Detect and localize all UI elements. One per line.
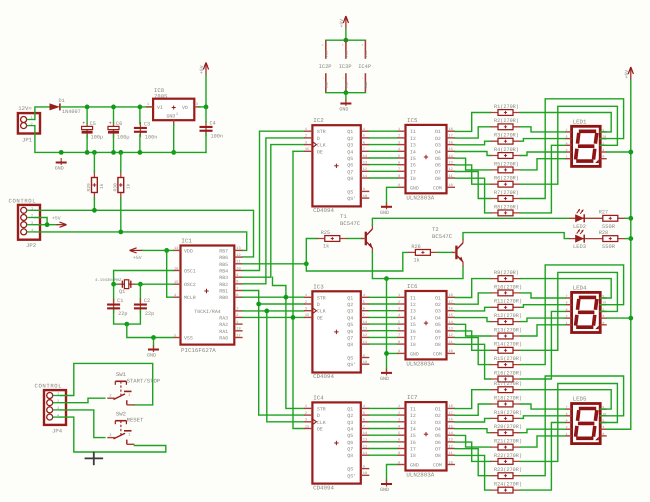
svg-text:14: 14 xyxy=(363,154,367,159)
svg-text:GND: GND xyxy=(380,376,389,382)
junction transistor emitters to GND xyxy=(384,351,389,356)
svg-text:12V=: 12V= xyxy=(18,105,32,112)
svg-text:Q5: Q5 xyxy=(347,433,353,439)
svg-text:RB4: RB4 xyxy=(219,269,228,275)
wire R24 to LED5 xyxy=(521,423,566,491)
wire T1 collector to LED2 xyxy=(372,218,569,225)
svg-text:R27: R27 xyxy=(599,210,608,216)
svg-text:13: 13 xyxy=(363,438,367,443)
junction emitter ground node xyxy=(384,276,389,281)
svg-text:Q2: Q2 xyxy=(347,413,353,419)
transistor T1 BC547C xyxy=(340,213,373,253)
svg-text:Q8: Q8 xyxy=(347,176,353,182)
svg-text:R21(270R): R21(270R) xyxy=(494,439,522,445)
svg-text:Q3: Q3 xyxy=(347,143,353,149)
wire R8 to LED1 xyxy=(521,145,566,213)
wire IC6 GND pin xyxy=(387,353,398,371)
junction VSS ground xyxy=(151,335,156,340)
wire node to R25 xyxy=(306,239,317,264)
svg-text:R15(270R): R15(270R) xyxy=(494,356,522,362)
svg-text:Q6: Q6 xyxy=(347,329,353,335)
svg-text:OSC2: OSC2 xyxy=(184,282,196,288)
wire node to T2 emitter xyxy=(387,267,464,279)
resistor R4 270R xyxy=(491,147,521,159)
svg-text:O5: O5 xyxy=(435,322,441,328)
svg-text:IC2P: IC2P xyxy=(319,64,332,70)
svg-text:9: 9 xyxy=(236,273,238,278)
wire net STROBE1 RB4 to IC2 STR xyxy=(243,131,304,270)
wire IC4 Q8 to IC7 I8 xyxy=(369,454,397,456)
wire R9 to LED4 segment right top xyxy=(521,279,612,298)
junction ground rail at C6 xyxy=(111,150,116,155)
svg-text:13: 13 xyxy=(449,327,453,332)
svg-text:13: 13 xyxy=(449,438,453,443)
svg-text:O2: O2 xyxy=(435,302,441,308)
svg-text:VO: VO xyxy=(182,105,188,111)
svg-text:6: 6 xyxy=(363,418,365,423)
junction +12V at C3 xyxy=(138,105,143,110)
svg-text:START/STOP: START/STOP xyxy=(127,377,161,384)
svg-text:RA3: RA3 xyxy=(219,315,228,321)
junction ground rail at R29 xyxy=(92,150,97,155)
svg-text:9: 9 xyxy=(363,187,365,192)
svg-text:MCLR: MCLR xyxy=(184,295,196,301)
wire IC5 O3 to R3 xyxy=(455,141,491,145)
svg-text:C3: C3 xyxy=(144,121,150,127)
svg-text:CLK: CLK xyxy=(317,309,326,315)
svg-text:GND: GND xyxy=(364,81,369,89)
svg-text:R29: R29 xyxy=(86,183,92,192)
svg-text:1k: 1k xyxy=(99,183,105,189)
resistor R9 270R xyxy=(491,270,521,282)
svg-text:R17(270R): R17(270R) xyxy=(494,381,522,387)
wire LED4 common anode to rail xyxy=(607,317,631,319)
svg-text:R23(270R): R23(270R) xyxy=(494,467,522,473)
svg-text:3: 3 xyxy=(305,307,307,312)
wire IC4 Q1 to IC7 I1 xyxy=(369,407,397,409)
+5V symbol at IC1 VDD pointing left xyxy=(130,248,143,261)
svg-text:+: + xyxy=(109,121,112,127)
capacitor C4 100n xyxy=(200,107,223,152)
junction ground rail at C3 xyxy=(138,150,143,155)
resistor R1 270R xyxy=(491,104,521,116)
svg-text:6: 6 xyxy=(363,307,365,312)
junction D2 net xyxy=(256,302,261,307)
svg-text:7: 7 xyxy=(236,286,238,291)
resistor R10 270R xyxy=(491,284,523,296)
svg-text:Q2: Q2 xyxy=(347,136,353,142)
svg-text:I4: I4 xyxy=(410,149,416,155)
svg-text:I5: I5 xyxy=(410,322,416,328)
wire R11 to LED4 xyxy=(521,305,566,308)
svg-text:IC2: IC2 xyxy=(313,117,324,124)
svg-text:+5V: +5V xyxy=(624,70,630,79)
svg-text:Q1: Q1 xyxy=(119,289,125,295)
junction ground rail at C5 xyxy=(85,150,90,155)
transistor T2 BC547C xyxy=(432,226,463,266)
svg-text:RB0: RB0 xyxy=(219,295,228,301)
svg-text:R14(270R): R14(270R) xyxy=(494,342,522,348)
junction JP2 +5V xyxy=(45,222,50,227)
svg-text:18: 18 xyxy=(236,327,240,332)
wire R7 loop over LED1 xyxy=(521,99,624,199)
svg-text:RB7: RB7 xyxy=(219,248,228,254)
junction GND rail xyxy=(344,90,349,95)
wire IC3 Q1 to IC6 I1 xyxy=(369,296,397,298)
svg-text:O5: O5 xyxy=(435,156,441,162)
svg-text:R20(270R): R20(270R) xyxy=(494,424,522,430)
junction digit driver node xyxy=(304,261,309,266)
svg-text:22p: 22p xyxy=(145,311,154,317)
svg-text:CD4094: CD4094 xyxy=(313,373,334,380)
wire IC3 Q7 to IC6 I7 xyxy=(369,336,397,338)
svg-text:16: 16 xyxy=(174,266,178,271)
svg-text:17: 17 xyxy=(449,411,453,416)
microcontroller IC1 PIC16F627A xyxy=(173,238,243,355)
svg-text:2: 2 xyxy=(31,122,33,127)
svg-text:IC3P: IC3P xyxy=(339,64,352,70)
svg-text:GND: GND xyxy=(167,114,176,120)
svg-text:O8: O8 xyxy=(435,453,441,459)
wire net RB3 jog to IC4 STR xyxy=(273,277,304,408)
svg-text:SW1: SW1 xyxy=(116,371,127,378)
svg-text:IC1: IC1 xyxy=(181,238,192,245)
wire IC7 O2 to R18 xyxy=(455,404,491,415)
svg-text:15: 15 xyxy=(174,280,178,285)
resistor R30 1k pulldown xyxy=(113,152,132,232)
svg-text:O7: O7 xyxy=(435,335,441,341)
wire R18 to LED5 xyxy=(521,404,566,409)
svg-text:JP4: JP4 xyxy=(52,427,63,434)
svg-text:1: 1 xyxy=(147,102,149,107)
resistor R24 270R xyxy=(491,482,523,494)
svg-text:O2: O2 xyxy=(435,413,441,419)
svg-text:R11(270R): R11(270R) xyxy=(494,299,522,305)
svg-text:GND: GND xyxy=(344,81,349,89)
svg-text:I2: I2 xyxy=(410,136,416,142)
svg-text:CD4094: CD4094 xyxy=(313,484,334,491)
svg-text:3: 3 xyxy=(398,418,400,423)
svg-text:8: 8 xyxy=(398,174,400,179)
svg-text:13: 13 xyxy=(449,161,453,166)
wire branch to IC3 D xyxy=(259,303,304,305)
svg-text:14: 14 xyxy=(363,320,367,325)
svg-text:RA2: RA2 xyxy=(219,322,228,328)
svg-text:O1: O1 xyxy=(435,295,441,301)
crystal Q1 4.19MHz xyxy=(95,278,136,295)
wire IC5 O4 to R4 xyxy=(455,152,491,156)
svg-text:14: 14 xyxy=(449,320,453,325)
VCC rail of IC power pins xyxy=(326,39,366,41)
svg-text:5: 5 xyxy=(363,134,365,139)
svg-text:IC5: IC5 xyxy=(407,117,418,124)
wire IC7 O3 to R19 xyxy=(455,418,491,422)
wire IC3 Q3 to IC6 I3 xyxy=(369,310,397,312)
origin cross marker xyxy=(85,452,104,466)
wire net CLOCK1 RB3 to IC2 CLK xyxy=(243,145,304,278)
svg-text:7: 7 xyxy=(398,444,400,449)
svg-text:R26: R26 xyxy=(411,244,420,250)
wire R13 to LED4 xyxy=(521,325,566,336)
svg-text:R25: R25 xyxy=(321,230,330,236)
wire to GND symbol at IC1 xyxy=(153,338,155,348)
svg-text:Q5: Q5 xyxy=(347,156,353,162)
svg-text:BC547C: BC547C xyxy=(432,233,453,240)
wire RA3 to IC3 OE xyxy=(243,316,304,318)
svg-text:14: 14 xyxy=(449,431,453,436)
svg-text:15: 15 xyxy=(305,313,309,318)
ground symbol at IC5 xyxy=(380,202,392,216)
wire R10 to LED4 xyxy=(521,293,566,298)
svg-text:9: 9 xyxy=(398,349,400,354)
svg-text:18: 18 xyxy=(449,127,453,132)
svg-text:R5(270R): R5(270R) xyxy=(494,161,519,167)
wire R27 to rail xyxy=(625,217,631,219)
svg-text:1: 1 xyxy=(566,432,568,436)
svg-text:7: 7 xyxy=(398,333,400,338)
svg-text:O7: O7 xyxy=(435,447,441,453)
resistor R28 550R xyxy=(595,230,625,250)
svg-text:2: 2 xyxy=(566,148,568,152)
svg-text:CD4094: CD4094 xyxy=(313,207,334,214)
svg-text:1: 1 xyxy=(305,293,307,298)
svg-text:D: D xyxy=(317,136,320,142)
svg-text:17: 17 xyxy=(449,300,453,305)
svg-text:11: 11 xyxy=(449,340,453,345)
svg-text:18: 18 xyxy=(449,293,453,298)
wire R22 loop over LED5 xyxy=(521,384,618,462)
svg-text:3: 3 xyxy=(305,140,307,145)
svg-text:3: 3 xyxy=(31,221,33,226)
svg-text:12: 12 xyxy=(449,333,453,338)
svg-text:GND: GND xyxy=(410,185,419,191)
svg-text:I3: I3 xyxy=(410,309,416,315)
switch SW2 RESET xyxy=(107,410,144,444)
wire net DATA1 RB2 to IC2 D xyxy=(243,138,304,284)
svg-text:VCC: VCC xyxy=(344,50,349,58)
wire IC6 O4 to R12 xyxy=(455,318,491,322)
svg-text:7: 7 xyxy=(566,294,568,298)
wire JP4 pin1 loop to SW1 xyxy=(61,363,153,405)
display LED1 7-segment xyxy=(565,118,607,166)
svg-text:8: 8 xyxy=(398,451,400,456)
svg-text:2: 2 xyxy=(305,411,307,416)
svg-text:RA1: RA1 xyxy=(219,329,228,335)
svg-text:PIC16F627A: PIC16F627A xyxy=(181,347,216,354)
svg-text:I4: I4 xyxy=(410,315,416,321)
svg-text:IC6: IC6 xyxy=(407,283,418,290)
svg-text:IC7: IC7 xyxy=(407,394,418,401)
svg-text:I8: I8 xyxy=(410,342,416,348)
junction VDD/MCLR xyxy=(164,248,169,253)
wire JP2 pin1 to RB6 xyxy=(35,210,254,257)
junction ground rail at IC8 xyxy=(171,150,176,155)
+5V symbol top right xyxy=(624,67,634,80)
wire IC4 Q7 to IC7 I7 xyxy=(369,448,397,450)
wire IC2 Q6 to IC5 I6 xyxy=(369,164,397,166)
svg-text:+5V: +5V xyxy=(339,19,345,28)
wire R19 to LED5 xyxy=(521,416,566,419)
svg-text:RA0: RA0 xyxy=(219,336,228,342)
wire R1 to LED1 segment right top xyxy=(521,113,612,132)
svg-text:I3: I3 xyxy=(410,143,416,149)
junction VCC rail xyxy=(344,38,349,43)
LED2 indicator xyxy=(569,209,596,230)
svg-text:Q4: Q4 xyxy=(347,149,353,155)
svg-text:I4: I4 xyxy=(410,427,416,433)
wire OSC1 to crystal xyxy=(114,271,173,285)
svg-text:VSS: VSS xyxy=(184,336,193,342)
svg-text:3: 3 xyxy=(305,418,307,423)
capacitor C2 22p xyxy=(134,298,154,317)
+5V rail right side xyxy=(607,80,631,429)
svg-text:12: 12 xyxy=(449,444,453,449)
wire R2 to LED1 xyxy=(521,127,566,132)
svg-text:1: 1 xyxy=(566,321,568,325)
svg-text:C4: C4 xyxy=(210,120,216,126)
svg-text:GND: GND xyxy=(339,107,348,113)
wire JP2 pin4 to RB7 xyxy=(35,232,247,251)
svg-text:2: 2 xyxy=(305,134,307,139)
svg-text:4: 4 xyxy=(363,404,365,409)
wire JP2 pin2 to +5V xyxy=(35,218,48,225)
svg-text:O3: O3 xyxy=(435,420,441,426)
svg-text:5: 5 xyxy=(398,154,400,159)
resistor R27 550R xyxy=(595,210,625,230)
wire IC6 O8 to R16 xyxy=(455,344,491,379)
junction rail at LED1 common xyxy=(628,150,633,155)
svg-text:1: 1 xyxy=(31,207,33,212)
svg-text:12: 12 xyxy=(236,253,240,258)
wire IC3 Q5 to IC6 I5 xyxy=(369,323,397,325)
junction rail at LED4 common xyxy=(628,316,633,321)
svg-text:C1: C1 xyxy=(117,298,123,304)
svg-text:4: 4 xyxy=(31,228,33,233)
svg-text:Q6: Q6 xyxy=(347,440,353,446)
wire R25 to T1 base xyxy=(347,238,361,240)
wire IC7 GND pin xyxy=(387,465,398,483)
svg-text:C6: C6 xyxy=(116,121,122,127)
wire IC4 Q5 to IC7 I5 xyxy=(369,434,397,436)
svg-text:I1: I1 xyxy=(410,129,416,135)
svg-text:2: 2 xyxy=(398,300,400,305)
svg-text:13: 13 xyxy=(236,246,240,251)
svg-text:-: - xyxy=(342,77,346,79)
svg-text:IC4: IC4 xyxy=(313,394,324,401)
svg-text:QS': QS' xyxy=(347,362,356,368)
svg-text:1N4007: 1N4007 xyxy=(62,109,81,115)
wire crystal right to C2 xyxy=(139,284,141,302)
wire IC6 O3 to R11 xyxy=(455,307,491,311)
svg-text:550R: 550R xyxy=(602,244,616,250)
power input connector JP1 12V xyxy=(18,105,40,144)
wire JP4 pin4 loop to SW2 xyxy=(61,417,166,452)
junction rail at R27 xyxy=(628,216,633,221)
shift register IC3 CD4094 xyxy=(304,283,369,380)
svg-text:GND: GND xyxy=(410,463,419,469)
svg-text:11: 11 xyxy=(363,451,367,456)
svg-text:QS': QS' xyxy=(347,196,356,202)
svg-text:Q3: Q3 xyxy=(347,309,353,315)
svg-text:Q1: Q1 xyxy=(347,129,353,135)
resistor R23 270R xyxy=(491,467,523,478)
ground symbol at IC7 xyxy=(380,480,392,494)
svg-text:100µ: 100µ xyxy=(117,134,129,140)
wire IC3 Q6 to IC6 I6 xyxy=(369,330,397,332)
svg-text:R10(270R): R10(270R) xyxy=(494,284,522,290)
svg-text:12: 12 xyxy=(449,167,453,172)
junction crystal left / C1 xyxy=(111,282,116,287)
svg-text:GND: GND xyxy=(324,81,329,89)
+5V symbol at JP2 pointing right xyxy=(52,216,67,228)
wire R6 loop over LED1 xyxy=(521,106,618,184)
svg-text:9: 9 xyxy=(363,353,365,358)
wire IC3 Q2 to IC6 I2 xyxy=(369,303,397,305)
svg-text:1: 1 xyxy=(31,116,33,121)
resistor R8 270R xyxy=(491,204,521,216)
svg-text:R22(270R): R22(270R) xyxy=(494,453,522,459)
svg-text:O2: O2 xyxy=(435,136,441,142)
svg-text:CLK: CLK xyxy=(317,420,326,426)
junction CLK2 net xyxy=(264,309,269,314)
svg-text:QS: QS xyxy=(347,189,353,195)
wire R26 to T2 base xyxy=(438,251,452,253)
svg-text:I5: I5 xyxy=(410,433,416,439)
+5V symbol at power supply output xyxy=(199,63,209,76)
svg-text:LED3: LED3 xyxy=(573,244,586,250)
svg-text:Q6: Q6 xyxy=(347,163,353,169)
svg-text:-: - xyxy=(322,77,326,79)
svg-text:4: 4 xyxy=(363,127,365,132)
svg-text:2: 2 xyxy=(566,425,568,429)
svg-text:I8: I8 xyxy=(410,176,416,182)
svg-text:R8(270R): R8(270R) xyxy=(494,204,519,210)
wire R3 to LED1 xyxy=(521,139,566,142)
svg-text:7: 7 xyxy=(566,405,568,409)
wire IC8 GND pin to ground rail xyxy=(173,125,175,153)
svg-text:JP2: JP2 xyxy=(26,242,36,249)
svg-text:CONTROL: CONTROL xyxy=(9,197,37,204)
svg-text:STR: STR xyxy=(317,129,326,135)
svg-text:I7: I7 xyxy=(410,169,416,175)
svg-text:I6: I6 xyxy=(410,163,416,169)
wire IC5 O6 to R6 xyxy=(455,165,491,184)
svg-text:I1: I1 xyxy=(410,295,416,301)
svg-text:RB6: RB6 xyxy=(219,255,228,261)
svg-text:10: 10 xyxy=(449,183,453,188)
svg-text:JP1: JP1 xyxy=(22,137,33,144)
diode D1 1N4007 xyxy=(50,98,81,115)
wire +5V to VDD xyxy=(143,249,173,251)
svg-text:I7: I7 xyxy=(410,335,416,341)
wire JP1 pin2 to ground rail xyxy=(35,126,61,153)
svg-text:16: 16 xyxy=(449,307,453,312)
svg-text:O4: O4 xyxy=(435,149,441,155)
wire net OE RA3 to IC2 IC3 IC4 OE xyxy=(293,150,304,152)
svg-text:11: 11 xyxy=(449,451,453,456)
svg-text:R30: R30 xyxy=(113,183,119,192)
svg-text:+5V: +5V xyxy=(133,255,142,261)
wire R28 to rail xyxy=(625,238,631,240)
wire IC7 O8 to R24 xyxy=(455,455,491,490)
svg-text:+5V: +5V xyxy=(199,65,205,74)
svg-text:10: 10 xyxy=(363,471,367,476)
svg-text:ULN2803A: ULN2803A xyxy=(406,472,434,479)
junction +12V at C6 xyxy=(111,105,116,110)
power pins IC3P VCC/GND xyxy=(339,40,352,92)
svg-text:+: + xyxy=(342,44,346,46)
wire D1 to IC8 input, +12V rail xyxy=(61,106,153,108)
